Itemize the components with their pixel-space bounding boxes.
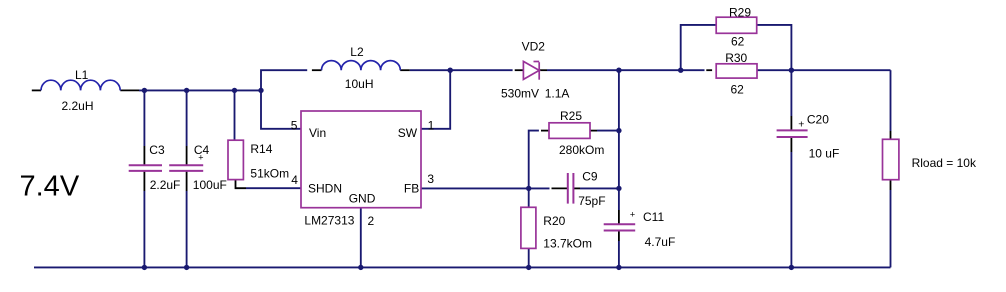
svg-text:2.2uH: 2.2uH	[62, 99, 94, 113]
svg-text:2: 2	[368, 214, 375, 228]
svg-text:FB: FB	[404, 182, 419, 196]
svg-text:LM27313: LM27313	[304, 213, 354, 227]
svg-text:+: +	[198, 152, 203, 162]
svg-text:C3: C3	[149, 143, 165, 157]
svg-text:1: 1	[428, 119, 435, 133]
svg-text:GND: GND	[349, 191, 376, 205]
svg-text:2.2uF: 2.2uF	[150, 178, 181, 192]
svg-text:10 uF: 10 uF	[809, 146, 840, 160]
svg-text:R14: R14	[250, 142, 272, 156]
svg-text:L1: L1	[75, 68, 89, 82]
svg-text:1.1A: 1.1A	[545, 86, 570, 100]
svg-text:5: 5	[291, 118, 298, 132]
svg-text:Rload = 10k: Rload = 10k	[912, 156, 977, 170]
svg-text:100uF: 100uF	[193, 178, 227, 192]
svg-text:62: 62	[731, 34, 745, 48]
svg-text:62: 62	[731, 82, 745, 96]
svg-text:SW: SW	[398, 126, 418, 140]
svg-text:C20: C20	[807, 113, 829, 127]
svg-text:R20: R20	[543, 214, 565, 228]
svg-text:R29: R29	[729, 6, 751, 20]
svg-text:75pF: 75pF	[578, 194, 605, 208]
svg-text:Vin: Vin	[309, 126, 326, 140]
svg-text:L2: L2	[350, 45, 364, 59]
svg-text:VD2: VD2	[522, 39, 546, 53]
svg-text:C11: C11	[643, 210, 664, 224]
svg-text:3: 3	[427, 172, 434, 186]
svg-text:+: +	[798, 119, 804, 131]
svg-text:51kOm: 51kOm	[250, 167, 289, 181]
svg-text:13.7kOm: 13.7kOm	[543, 237, 592, 251]
svg-text:SHDN: SHDN	[308, 182, 342, 196]
svg-text:280kOm: 280kOm	[559, 143, 604, 157]
svg-text:C9: C9	[582, 170, 598, 184]
svg-text:530mV: 530mV	[501, 86, 539, 100]
svg-text:4.7uF: 4.7uF	[645, 235, 676, 249]
svg-text:7.4V: 7.4V	[20, 170, 80, 202]
svg-text:10uH: 10uH	[345, 77, 374, 91]
svg-text:R25: R25	[560, 109, 582, 123]
svg-text:R30: R30	[725, 51, 747, 65]
svg-text:+: +	[630, 210, 635, 220]
svg-text:4: 4	[291, 173, 298, 187]
